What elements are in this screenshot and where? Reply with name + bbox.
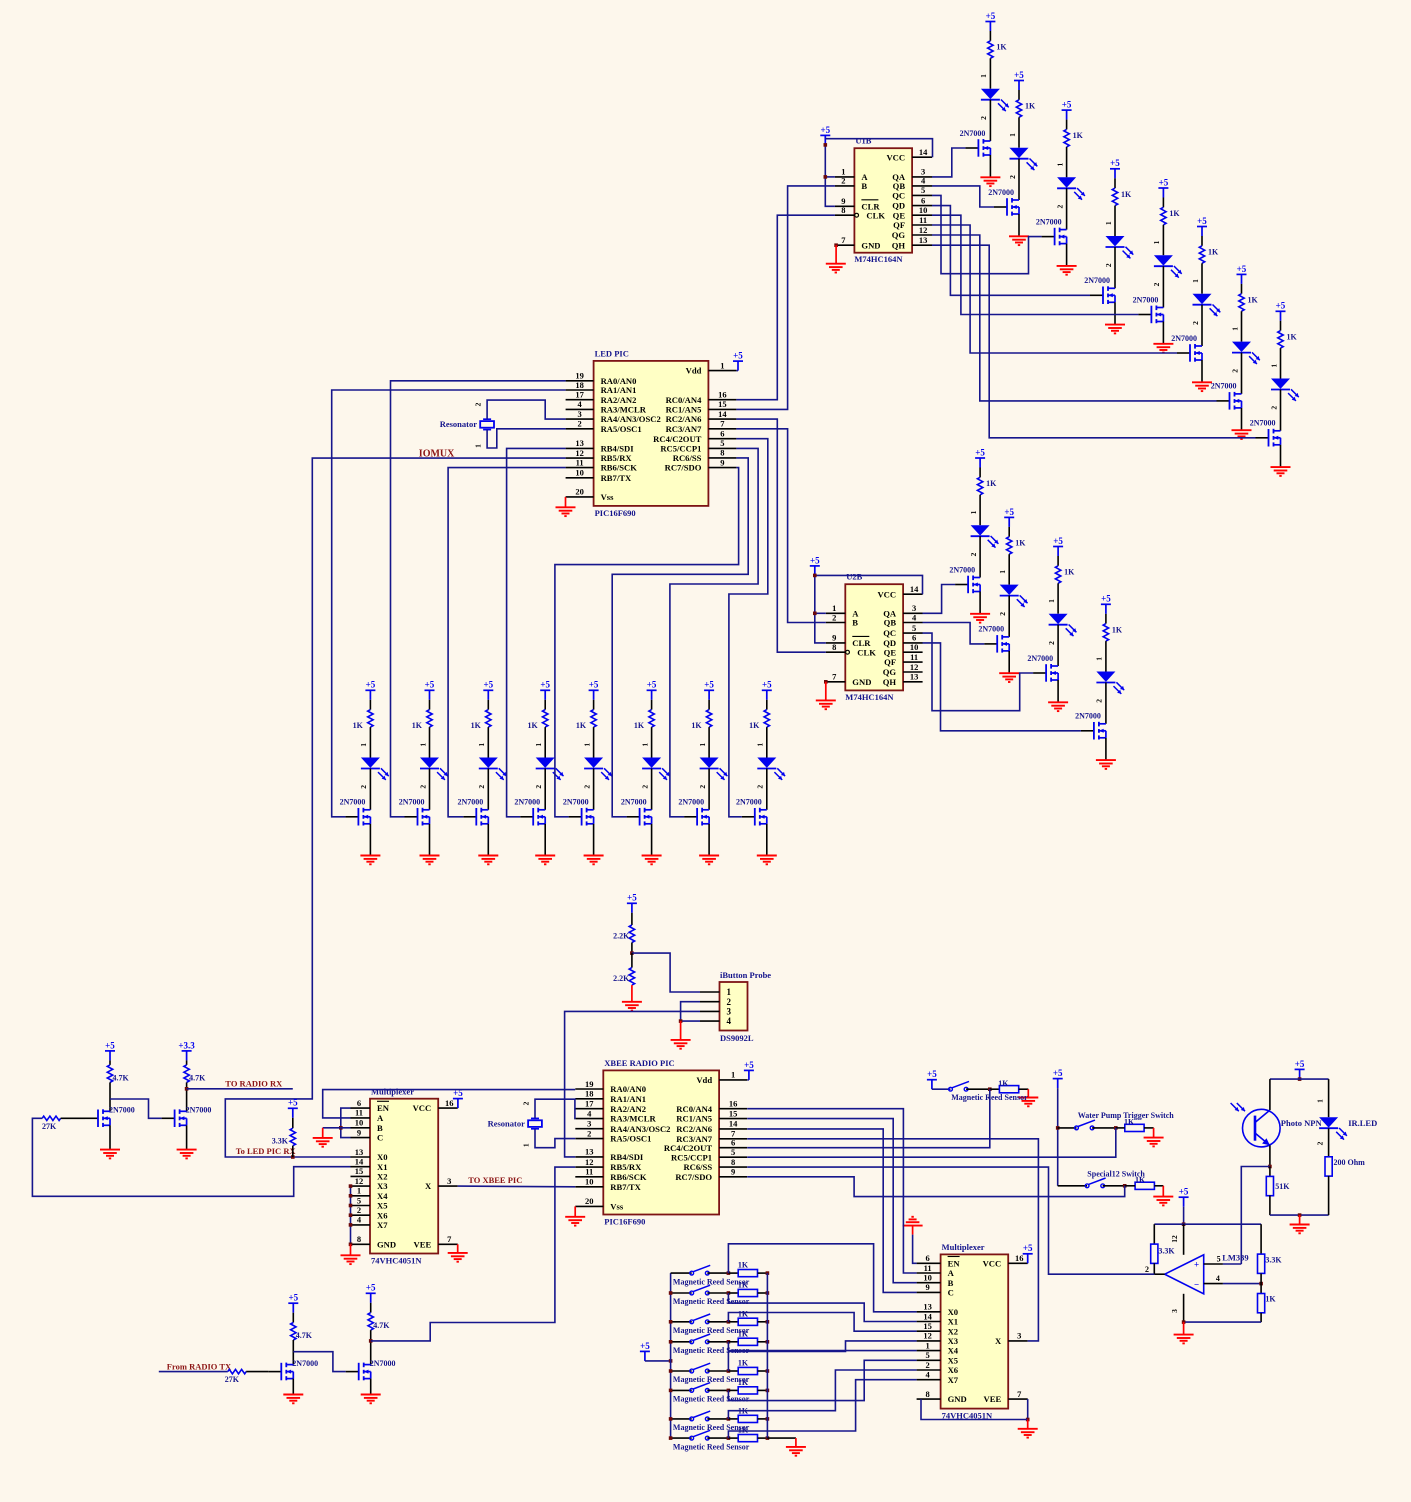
svg-text:Multiplexer: Multiplexer — [371, 1087, 414, 1097]
svg-text:8: 8 — [720, 448, 724, 458]
wire rail to opamp pin 12 — [1183, 1224, 1185, 1255]
ground D16 — [535, 856, 555, 865]
wire U2B +5 to VCC and A CLR — [815, 575, 826, 643]
wire net reed1 to mux2 X0 — [728, 1244, 916, 1312]
XBEE PIC pin 16 RC0/AN4 — [719, 1108, 747, 1110]
svg-text:1K: 1K — [998, 1079, 1009, 1088]
svg-text:2: 2 — [756, 785, 765, 789]
svg-text:U2B: U2B — [846, 572, 862, 582]
wire source to ground D15 — [487, 824, 489, 856]
LED D D4 — [1106, 236, 1125, 246]
wire Q2 source to ground — [186, 1125, 188, 1149]
svg-text:+5: +5 — [627, 893, 637, 903]
svg-text:12: 12 — [919, 225, 928, 235]
svg-text:11: 11 — [355, 1108, 363, 1118]
LED PIC pin 11 RB6/SCK — [566, 467, 594, 469]
op-amp U3 LM339 — [1165, 1255, 1204, 1294]
svg-text:RC6/SS: RC6/SS — [683, 1162, 712, 1172]
svg-text:IOMUX: IOMUX — [419, 449, 455, 460]
svg-text:EN: EN — [948, 1258, 961, 1268]
XBEE PIC pin 5 RC5/CCP1 — [719, 1156, 747, 1158]
svg-text:X5: X5 — [948, 1355, 959, 1365]
LED PIC pin 9 RC7/SDO — [708, 467, 736, 469]
svg-text:1K: 1K — [1121, 190, 1132, 199]
svg-text:QC: QC — [892, 191, 905, 201]
wire source to ground D14 — [429, 824, 431, 856]
svg-text:2: 2 — [727, 997, 732, 1007]
LED PIC pin 16 RC0/AN4 — [708, 399, 736, 401]
LED D D11 — [1049, 614, 1068, 624]
svg-text:X: X — [995, 1336, 1002, 1346]
svg-text:RC2/AN6: RC2/AN6 — [666, 414, 703, 424]
junction reed 7 — [727, 1417, 731, 1421]
resistor R 1K water pump — [1125, 1124, 1144, 1131]
wire net QB to D2 gate — [932, 186, 994, 207]
svg-text:13: 13 — [919, 235, 928, 245]
XBEE PIC pin 7 RC3/AN7 — [719, 1138, 747, 1140]
svg-text:2N7000: 2N7000 — [1250, 419, 1276, 428]
iButton pin 2 — [700, 1001, 720, 1003]
wire reed 6 to junction — [707, 1389, 728, 1391]
wire resistor to LED D7 — [1241, 311, 1243, 341]
resistor R D5 1K — [1161, 207, 1166, 225]
LED PIC pin 19 RA0/AN0 — [566, 380, 594, 382]
junction reed 2 right — [766, 1291, 770, 1295]
resistor R D4 1K — [1112, 188, 1117, 206]
wire U1B +5 to VCC and A CLR — [825, 145, 835, 206]
wire U2B A junction — [815, 612, 826, 614]
junction mux2 GND node — [1026, 1418, 1030, 1422]
wire Q3 source to ground — [292, 1379, 294, 1395]
U1B pin 3 QA — [912, 176, 932, 178]
junction reed 4 right — [766, 1340, 770, 1344]
svg-text:RA0/AN0: RA0/AN0 — [610, 1084, 646, 1094]
svg-text:+3.3: +3.3 — [178, 1040, 195, 1050]
svg-text:X7: X7 — [948, 1375, 959, 1385]
svg-text:13: 13 — [575, 438, 584, 448]
wire net QA to D1 gate — [932, 148, 965, 177]
wire LED to MOSFET drain D14 — [429, 769, 431, 810]
junction mux1 strap — [349, 1223, 353, 1227]
svg-text:1: 1 — [582, 743, 591, 747]
svg-text:Vdd: Vdd — [686, 366, 702, 376]
svg-text:3: 3 — [727, 1007, 732, 1017]
svg-text:2N7000: 2N7000 — [1027, 654, 1053, 663]
svg-text:1K: 1K — [691, 721, 702, 730]
LED D D9 — [971, 525, 990, 535]
svg-text:2: 2 — [832, 612, 836, 622]
svg-text:1: 1 — [698, 743, 707, 747]
wire source to ground D16 — [544, 824, 546, 856]
wire reed bus to ground — [767, 1437, 796, 1439]
wire +5 to resistor D20 — [766, 700, 768, 710]
svg-text:2: 2 — [1145, 1265, 1149, 1274]
wire LED to MOSFET drain D19 — [708, 769, 710, 810]
wire LED to MOSFET drain D15 — [487, 769, 489, 810]
wire net RC5 to D19 gate — [670, 448, 758, 816]
svg-text:QB: QB — [893, 181, 906, 191]
wire LED to MOSFET drain D12 — [1105, 683, 1107, 724]
LED PIC pin 20 Vss — [566, 496, 594, 498]
svg-text:1K: 1K — [1208, 248, 1219, 257]
mux1 pin 11 A — [351, 1117, 371, 1119]
wire U1B A junction — [825, 176, 835, 178]
svg-text:RC7/SDO: RC7/SDO — [675, 1172, 712, 1182]
wire reed switch to junction — [966, 1088, 990, 1090]
svg-text:1: 1 — [474, 444, 483, 448]
svg-text:GND: GND — [948, 1394, 967, 1404]
svg-text:2: 2 — [1095, 699, 1104, 703]
svg-text:+5: +5 — [366, 1283, 376, 1293]
wire opamp top rail — [1154, 1223, 1261, 1225]
wire net QF to D6 gate — [932, 225, 1177, 353]
LED D D20 — [757, 758, 776, 768]
wire IR LED to 200 Ohm — [1328, 1128, 1330, 1157]
resistor R 1K reed 2 — [728, 1292, 738, 1294]
svg-text:2: 2 — [640, 785, 649, 789]
mux1 pin 14 X1 — [351, 1166, 371, 1168]
junction reed 7 right — [766, 1417, 770, 1421]
ground photo block — [1299, 1215, 1301, 1224]
junction mux1 strap — [349, 1184, 353, 1188]
svg-text:10: 10 — [910, 642, 919, 652]
resistor R 200 Ohm — [1325, 1157, 1332, 1176]
iButton pin 4 — [700, 1020, 720, 1022]
resistor R D17 1K — [591, 710, 596, 728]
svg-text:1K: 1K — [634, 721, 645, 730]
power +5 Q3 — [288, 1303, 298, 1313]
wire resistor to LED D13 — [369, 727, 371, 757]
XBEE PIC pin 6 RC4/C2OUT — [719, 1147, 747, 1149]
junction mux1 strap — [349, 1213, 353, 1217]
mux2 pin 8 GND — [917, 1398, 941, 1400]
resistor R D9 1K — [977, 477, 982, 495]
wire net mux1 X1 to 27K loop — [32, 1118, 350, 1196]
svg-text:QH: QH — [883, 677, 897, 687]
wire +5 to resistor D18 — [651, 700, 653, 710]
svg-text:RC4/C2OUT: RC4/C2OUT — [653, 434, 701, 444]
svg-text:2: 2 — [1191, 321, 1200, 325]
wire +5 to resistor D15 — [487, 700, 489, 710]
mux1 pin 7 VEE — [438, 1243, 458, 1245]
svg-text:X1: X1 — [948, 1317, 959, 1327]
svg-text:Multiplexer: Multiplexer — [942, 1242, 985, 1252]
junction opamp rail — [1182, 1222, 1186, 1226]
svg-text:1K: 1K — [1265, 1295, 1276, 1304]
resistor R 4.7K Q2 — [184, 1065, 189, 1083]
svg-text:2N7000: 2N7000 — [960, 129, 986, 138]
svg-text:+5: +5 — [1053, 536, 1063, 546]
svg-text:16: 16 — [729, 1099, 738, 1109]
wire net TO RADIO RX — [187, 1088, 293, 1090]
wire net XBEE RC0 to mux2 A — [747, 1109, 916, 1273]
junction reed bus 3 — [669, 1320, 673, 1324]
switch SW reed 8 — [671, 1437, 692, 1439]
wire mux2 GND pin 8 to VEE ground — [921, 1399, 1028, 1419]
svg-text:2: 2 — [359, 785, 368, 789]
svg-text:12: 12 — [1170, 1235, 1179, 1243]
svg-text:TO RADIO RX: TO RADIO RX — [225, 1078, 283, 1088]
svg-text:EN: EN — [377, 1103, 390, 1113]
wire net reed7 to mux2 X6 — [728, 1370, 916, 1419]
U1B pin 11 QF — [912, 224, 932, 226]
svg-text:+5: +5 — [1237, 264, 1247, 274]
svg-text:15: 15 — [923, 1321, 932, 1331]
ground D7 — [1232, 430, 1252, 439]
wire Q1 drain to Q2 gate — [110, 1099, 162, 1118]
wire resistor to LED D16 — [544, 727, 546, 757]
U2B pin 4 QB — [903, 622, 923, 624]
svg-text:RA3/MCLR: RA3/MCLR — [610, 1114, 656, 1124]
wire 4.7K to Q3 drain — [292, 1340, 294, 1365]
resistor R 2.2K upper — [629, 925, 634, 943]
svg-text:7: 7 — [832, 672, 837, 682]
wire +5 to resistor D6 — [1201, 236, 1203, 246]
junction reed single — [988, 1087, 992, 1091]
wire resistor to LED D5 — [1162, 225, 1164, 255]
svg-text:1K: 1K — [1073, 131, 1084, 140]
wire LED to MOSFET drain D18 — [651, 769, 653, 810]
wire 27K to Q1 gate — [61, 1117, 85, 1119]
svg-text:IR.LED: IR.LED — [1348, 1118, 1377, 1128]
svg-text:2N7000: 2N7000 — [340, 798, 366, 807]
svg-text:2N7000: 2N7000 — [370, 1359, 396, 1368]
svg-text:4: 4 — [921, 176, 926, 186]
svg-text:2N7000: 2N7000 — [678, 798, 704, 807]
svg-text:+5: +5 — [820, 125, 830, 135]
junction iButton divider — [630, 951, 634, 955]
svg-text:2: 2 — [582, 785, 591, 789]
mux1 pin 10 B — [351, 1127, 371, 1129]
svg-text:5: 5 — [925, 1350, 929, 1360]
wire From RADIO TX to 27K — [159, 1371, 228, 1373]
junction reed 3 — [727, 1320, 731, 1324]
svg-text:RA2/AN2: RA2/AN2 — [610, 1104, 646, 1114]
power +5 photo block — [1295, 1069, 1305, 1079]
LED PIC pin 10 RB7/TX — [566, 477, 594, 479]
wire resistor to LED D14 — [429, 727, 431, 757]
svg-text:14: 14 — [355, 1157, 364, 1167]
svg-text:16: 16 — [1015, 1253, 1024, 1263]
wire 27K to Q3 gate — [246, 1371, 268, 1373]
wire 200 Ohm to bottom rail — [1328, 1176, 1330, 1215]
wire reed 2 to junction — [707, 1292, 728, 1294]
wire resistor to LED D20 — [766, 727, 768, 757]
svg-text:7: 7 — [720, 419, 725, 429]
U2B pin 1 A — [826, 612, 846, 614]
svg-text:14: 14 — [729, 1119, 738, 1129]
XBEE PIC pin 9 RC7/SDO — [719, 1176, 747, 1178]
svg-text:12: 12 — [585, 1157, 594, 1167]
LED D D3 — [1057, 177, 1076, 187]
svg-text:3: 3 — [1170, 1309, 1179, 1313]
svg-text:1K: 1K — [1112, 625, 1123, 634]
switch SW reed 6 — [671, 1389, 692, 1391]
svg-text:3.3K: 3.3K — [1265, 1255, 1282, 1264]
mux2 pin 3 X — [1008, 1340, 1027, 1342]
svg-text:+5: +5 — [1101, 594, 1111, 604]
svg-text:9: 9 — [925, 1282, 929, 1292]
LED PIC pin 13 RB4/SDI — [566, 447, 594, 449]
resonator pin 1 wire — [487, 429, 565, 448]
junction reed 8 right — [766, 1436, 770, 1440]
mux2 pin 16 VCC — [1008, 1262, 1027, 1264]
svg-text:2: 2 — [534, 785, 543, 789]
junction reed 6 right — [766, 1389, 770, 1393]
svg-text:2N7000: 2N7000 — [1075, 712, 1101, 721]
ground D19 — [699, 856, 719, 865]
XBEE PIC pin 13 RB4/SDI — [575, 1156, 603, 1158]
wire net reed3 to mux2 X2 — [728, 1313, 916, 1332]
U1B pin 13 QH — [912, 244, 932, 246]
resonator pin 2 wire — [487, 400, 565, 419]
svg-text:1: 1 — [1104, 221, 1113, 225]
svg-text:2N7000: 2N7000 — [1171, 334, 1197, 343]
ground D9 — [970, 614, 990, 623]
ground mux1 VEE — [457, 1244, 459, 1253]
power +5 D2 — [1014, 81, 1024, 91]
svg-text:2: 2 — [357, 1205, 361, 1215]
mux1 pin 8 GND — [351, 1243, 371, 1245]
svg-text:QH: QH — [892, 240, 906, 250]
resistor R D2 1K — [1016, 100, 1021, 118]
svg-text:+5: +5 — [105, 1040, 115, 1050]
wire LED to MOSFET drain D3 — [1066, 188, 1068, 229]
svg-text:1K: 1K — [471, 721, 482, 730]
svg-text:1: 1 — [731, 1070, 735, 1080]
svg-text:14: 14 — [910, 584, 919, 594]
svg-text:1K: 1K — [738, 1281, 749, 1290]
svg-text:11: 11 — [919, 215, 927, 225]
resistor R 1K reed single — [999, 1086, 1018, 1093]
junction U2B A node — [813, 612, 817, 616]
wire +5 to reed switch — [932, 1088, 951, 1090]
wire 1K reed 6 to right bus — [758, 1389, 768, 1391]
svg-text:2N7000: 2N7000 — [458, 798, 484, 807]
svg-text:1K: 1K — [1169, 209, 1180, 218]
svg-text:18: 18 — [575, 380, 584, 390]
svg-text:+5: +5 — [288, 1098, 298, 1108]
wire source to ground D9 — [979, 592, 981, 614]
wire 2.2K R1 to junction — [631, 943, 633, 954]
wire +5 down to switches — [1057, 1088, 1059, 1186]
ground mux2 — [1027, 1420, 1029, 1429]
svg-text:U1B: U1B — [855, 136, 871, 146]
mux2 pin 6 EN — [917, 1262, 941, 1264]
svg-text:RB5/RX: RB5/RX — [601, 453, 633, 463]
ground mux1 B EN C — [322, 1128, 324, 1138]
wire 1K reed 8 to right bus — [758, 1437, 768, 1439]
svg-text:RA4/AN3/OSC2: RA4/AN3/OSC2 — [610, 1124, 670, 1134]
U2B pin 2 B — [826, 622, 846, 624]
wire photo bottom rail — [1270, 1214, 1329, 1216]
svg-text:2: 2 — [1269, 406, 1278, 410]
IC XBEE RADIO PIC box PIC16F690 — [603, 1070, 719, 1214]
U2B pin 3 QA — [903, 612, 923, 614]
wire +5 to resistor D13 — [369, 700, 371, 710]
svg-text:12: 12 — [355, 1176, 364, 1186]
wire net iButton pin3 to XBEE RB4 — [565, 1011, 700, 1157]
ground D4 — [1105, 325, 1125, 334]
LED D D6 — [1193, 294, 1212, 304]
XBEE PIC pin 4 RA3/MCLR — [575, 1118, 603, 1120]
ground mux1 GND — [350, 1244, 352, 1255]
mux2 pin 10 B — [917, 1282, 941, 1284]
power +3.3 Q2 — [182, 1051, 192, 1061]
svg-text:1K: 1K — [576, 721, 587, 730]
svg-text:RA5/OSC1: RA5/OSC1 — [601, 424, 642, 434]
U2B pin 8 CLK — [826, 651, 846, 653]
wire net QH to D8 gate — [932, 245, 1256, 438]
wire +5 to resistor D4 — [1114, 178, 1116, 188]
svg-text:RB7/TX: RB7/TX — [610, 1182, 641, 1192]
svg-text:2: 2 — [698, 785, 707, 789]
wire net U2B QC to D11 gate — [923, 633, 1034, 711]
svg-text:VCC: VCC — [877, 589, 896, 599]
mux2 pin 14 X1 — [917, 1321, 941, 1323]
mux1 pin 15 X2 — [351, 1175, 371, 1177]
resistor R 1K reed 8 — [728, 1437, 738, 1439]
svg-text:VEE: VEE — [984, 1394, 1002, 1404]
svg-text:2: 2 — [841, 176, 845, 186]
wire resistor to LED D11 — [1057, 583, 1059, 613]
ground Q3 — [283, 1395, 303, 1404]
LED D D17 — [584, 758, 603, 768]
junction reed 8 — [727, 1436, 731, 1440]
svg-text:2N7000: 2N7000 — [514, 798, 540, 807]
svg-text:X5: X5 — [377, 1201, 388, 1211]
LED PIC pin 8 RC6/SS — [708, 457, 736, 459]
wire net U2B QB to D10 gate — [923, 623, 985, 644]
junction special12 — [1123, 1184, 1127, 1188]
svg-text:RA2/AN2: RA2/AN2 — [601, 395, 637, 405]
LED D D8 — [1271, 379, 1290, 389]
power +5 Q1 — [105, 1051, 115, 1061]
svg-text:+5: +5 — [1276, 301, 1286, 311]
ground U1B — [835, 245, 837, 264]
wire net IOMUX RB5 to mux1 X0 — [225, 458, 565, 1157]
wire net special12 to XBEE RC7 — [747, 1177, 1124, 1197]
wire resistor to LED D8 — [1280, 348, 1282, 378]
wire +5 to 4.7K Q1 — [109, 1060, 111, 1065]
wire photo emitter to node — [1269, 1145, 1271, 1166]
junction reed 2 — [727, 1291, 731, 1295]
svg-text:1: 1 — [1055, 162, 1064, 166]
XBEE PIC pin 1 Vdd — [719, 1079, 747, 1081]
svg-text:74VHC4051N: 74VHC4051N — [371, 1256, 422, 1266]
svg-text:X4: X4 — [948, 1346, 959, 1356]
svg-text:RC0/AN4: RC0/AN4 — [666, 395, 703, 405]
svg-text:12: 12 — [575, 448, 584, 458]
svg-text:+5: +5 — [1295, 1059, 1305, 1069]
svg-text:+5: +5 — [1053, 1068, 1063, 1078]
junction water pump — [1114, 1126, 1118, 1130]
ground D5 — [1153, 344, 1173, 353]
IC iButton Probe box DS9092L — [720, 982, 748, 1031]
svg-text:RB4/SDI: RB4/SDI — [601, 444, 635, 454]
svg-text:2: 2 — [474, 402, 483, 406]
svg-text:A: A — [377, 1113, 384, 1123]
junction reed 3 right — [766, 1320, 770, 1324]
ground U2B — [825, 682, 827, 701]
U2B pin 14 VCC — [903, 593, 923, 595]
svg-text:16: 16 — [445, 1098, 454, 1108]
wire net reed single to XBEE RC4 — [747, 1089, 990, 1148]
ground Q1 — [100, 1150, 120, 1159]
ground D8 — [1271, 467, 1291, 476]
svg-text:X3: X3 — [948, 1336, 959, 1346]
LED D D15 — [479, 758, 498, 768]
